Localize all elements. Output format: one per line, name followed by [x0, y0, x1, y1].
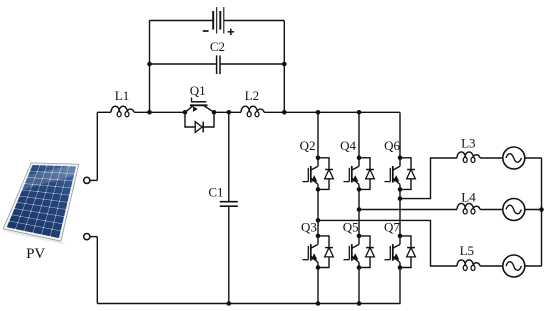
svg-text:Q3: Q3 [301, 220, 317, 235]
svg-text:Q7: Q7 [384, 220, 400, 235]
svg-text:PV: PV [26, 246, 45, 262]
svg-text:L5: L5 [460, 243, 474, 258]
svg-text:Q4: Q4 [340, 138, 356, 153]
svg-text:Q2: Q2 [300, 138, 316, 153]
svg-text:C2: C2 [210, 39, 225, 54]
svg-text:Q1: Q1 [190, 83, 206, 98]
svg-text:L3: L3 [461, 136, 475, 151]
svg-text:Q6: Q6 [384, 138, 400, 153]
svg-text:L2: L2 [245, 88, 259, 103]
svg-text:L4: L4 [461, 189, 476, 204]
svg-text:Q5: Q5 [343, 220, 359, 235]
svg-text:C1: C1 [208, 185, 223, 200]
svg-text:L1: L1 [115, 88, 129, 103]
